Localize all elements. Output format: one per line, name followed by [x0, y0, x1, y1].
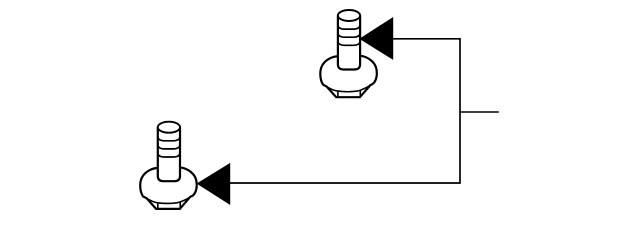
leader line from upper arrow to lower arrow: [230, 39, 460, 183]
hex head front corner lines: [158, 202, 180, 209]
washer bottom arc: [147, 197, 191, 204]
flange/washer outline with hex head: [320, 56, 377, 97]
shaft top ellipse: [158, 122, 180, 133]
arrow pointing at upper bolt: [360, 18, 393, 59]
flange/washer outline with hex head: [140, 168, 197, 209]
bolt B2 (lower flange bolt): [140, 122, 197, 209]
shaft top ellipse: [338, 10, 360, 21]
tick stub on leader line: [460, 111, 499, 113]
shaft: [338, 16, 360, 70]
bolt B1 (upper flange bolt): [320, 10, 377, 97]
thread arcs: [338, 26, 360, 46]
hex head front corner lines: [338, 90, 360, 97]
washer bottom arc: [327, 85, 371, 92]
thread arcs: [158, 137, 180, 157]
arrow pointing at lower bolt: [198, 164, 230, 204]
shaft: [158, 127, 180, 181]
